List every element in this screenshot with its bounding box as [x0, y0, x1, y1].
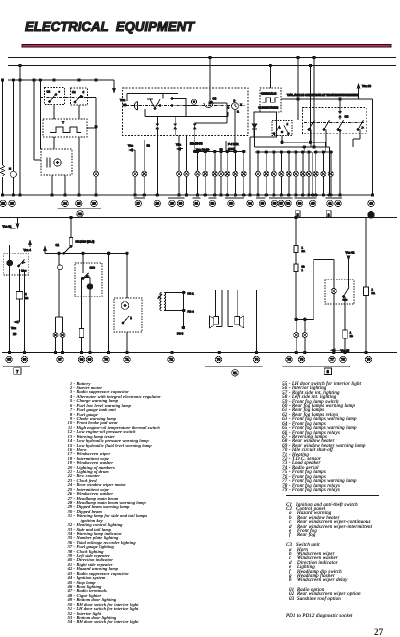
lamps cluster B — [255, 171, 311, 176]
front fog lamps 75 76 — [294, 333, 308, 338]
wire rear wiper leg — [126, 332, 128, 353]
wire Z Rb to Ven 29 arrow — [11, 299, 20, 336]
svg-text:24: 24 — [63, 202, 67, 206]
svg-text:C2: C2 — [72, 91, 76, 94]
wire bus of lamp cluster A — [195, 151, 245, 153]
svg-text:ELECTRICAL EQUIPMENT: ELECTRICAL EQUIPMENT — [25, 19, 195, 34]
svg-text:Ven 26: Ven 26 — [362, 84, 371, 88]
svg-text:V: V — [240, 103, 242, 106]
ignition switch C1 — [56, 243, 72, 254]
numbered terminals row 1 — [0, 200, 374, 206]
boxed sheet ref 6 — [326, 211, 331, 217]
svg-text:23: 23 — [10, 202, 14, 206]
bracket 73-74 with option 01 — [205, 367, 263, 376]
wire C2d down — [78, 105, 80, 119]
wire leg item 41 — [328, 147, 330, 195]
wire lamp feed branch — [19, 269, 21, 292]
wire relay to lamp split — [295, 272, 314, 321]
fog switch dashed box right — [325, 280, 354, 304]
wire GD box drop — [281, 136, 284, 144]
svg-text:69: 69 — [88, 358, 92, 362]
svg-text:C2: C2 — [345, 114, 349, 118]
junction dots on bus A — [196, 150, 245, 153]
resistor Z Rb — [16, 292, 29, 300]
svg-text:27: 27 — [137, 202, 141, 206]
label Ven B2-65-78 — [176, 142, 223, 152]
wire right edge down to rail (item 43) — [372, 99, 374, 195]
svg-text:78: 78 — [341, 358, 345, 362]
dash-dot centerline of C3 — [126, 105, 245, 107]
Ven 26 stub — [357, 84, 371, 100]
wire bus of cluster C — [314, 151, 334, 154]
svg-text:Ven 31: Ven 31 — [346, 250, 355, 254]
switch unit C3 (dashed box) — [123, 88, 249, 136]
loud speaker 2 (item 74a) — [235, 316, 244, 328]
wire C2b feed — [82, 253, 84, 273]
wire T box legs — [54, 137, 79, 195]
flasher unit CENTRALE CLIGNOTANTE (dashed box) — [258, 88, 281, 112]
wire 62 feed lamp 27b — [144, 140, 150, 171]
wire fuel tank unit line — [2, 80, 4, 195]
svg-text:D: D — [234, 100, 236, 103]
wiper switch lever in C3 — [147, 99, 160, 109]
svg-text:c: c — [59, 91, 61, 94]
svg-text:C2 b: C2 b — [90, 266, 96, 269]
fuel gauge (item 8) — [9, 168, 17, 178]
wire pin 157 drop to rail (item 28) — [156, 117, 158, 196]
Ven 31 stub left — [3, 218, 20, 229]
wire flasher feed from bus B — [269, 64, 272, 88]
svg-text:79: 79 — [367, 358, 371, 362]
wire drop x40 into motor box — [39, 80, 41, 149]
svg-text:40: 40 — [123, 103, 127, 107]
wire boot lamp legs — [56, 337, 63, 352]
connector pins at C3 bottom — [156, 124, 197, 130]
bracket 75-79 with boxed 8 — [283, 366, 351, 374]
svg-text:33: 33 — [229, 202, 233, 206]
bracket 24-26 with circle 62 — [58, 209, 102, 217]
legend separator line — [286, 495, 379, 496]
svg-text:62: 62 — [147, 144, 151, 148]
wire C2c to timer box — [53, 105, 55, 120]
svg-text:Rb: Rb — [350, 335, 354, 338]
svg-text:F2 MAU (16 A): F2 MAU (16 A) — [76, 240, 95, 244]
hazard unit C2 (dashed box) — [303, 108, 367, 134]
wire C1 feed — [70, 216, 73, 237]
svg-text:B2-65-78: B2-65-78 — [190, 142, 203, 146]
switch C2 e right — [343, 288, 350, 302]
svg-text:C3: C3 — [213, 96, 217, 100]
svg-text:PD 4: PD 4 — [188, 309, 195, 313]
arrow at C1 rail end — [43, 246, 46, 253]
wire rear wiper feed — [126, 253, 128, 298]
wire bus A (+ supply) — [8, 57, 396, 59]
svg-text:32: 32 — [211, 202, 215, 206]
label VALABLE CENTRALE TRANSISTORISEE — [287, 93, 358, 97]
svg-text:40: 40 — [311, 202, 315, 206]
svg-text:01: 01 — [233, 371, 237, 375]
legend connector blocks C1 C2 C3 and options — [286, 504, 372, 603]
switch b in hazard box — [323, 120, 329, 130]
wire inner bottom bus of C3 — [145, 109, 228, 117]
svg-text:77: 77 — [330, 358, 334, 362]
svg-text:G: G — [273, 133, 275, 136]
wire relay box drop to rail (item 34) — [250, 137, 255, 195]
svg-text:26: 26 — [92, 202, 96, 206]
lighting switch hook in C3 — [204, 101, 213, 107]
heated rear window lamp in C2b — [87, 278, 93, 290]
junction dot bus B at x20 — [19, 64, 22, 67]
svg-text:28: 28 — [156, 202, 160, 206]
switch d in hazard box — [357, 120, 364, 130]
switch in C2b — [82, 273, 91, 279]
wire switch leg to Rb — [343, 297, 354, 353]
wire choke warning line x96 — [95, 128, 97, 195]
boot light switch (item 46) — [58, 263, 63, 272]
wire long drop x20 — [19, 66, 21, 196]
wire C2b leg 1 with resistor — [79, 278, 84, 353]
svg-text:7: 7 — [16, 369, 19, 374]
svg-text:6: 6 — [328, 213, 330, 217]
svg-text:d: d — [83, 91, 85, 94]
boot lamps pair (item 67) — [53, 333, 65, 338]
svg-text:65: 65 — [7, 358, 11, 362]
control panel switch C2 d (dashed box) — [71, 88, 88, 105]
svg-text:C1: C1 — [56, 243, 60, 247]
wire top feed of transistorised unit — [281, 98, 373, 101]
svg-text:Ven 31: Ven 31 — [3, 224, 12, 228]
lamp pair item 60 — [133, 171, 147, 176]
wire speaker 2 pair — [228, 290, 237, 327]
svg-text:d: d — [287, 123, 289, 126]
label fuse F4 VER 10A — [226, 141, 239, 151]
lamps cluster C — [313, 171, 333, 176]
wire far right leg — [364, 218, 376, 353]
windscreen wiper motor assembly (dashed box) — [41, 149, 72, 175]
relay contact Rb 1 — [294, 264, 305, 272]
wire fog lamp 77 leg — [333, 294, 335, 353]
svg-text:67: 67 — [58, 358, 62, 362]
intermittent wipe timer T (dashed box) — [43, 119, 87, 137]
wire front fog lamp legs — [296, 319, 305, 332]
wire speaker 1 pair — [215, 290, 222, 327]
svg-text:Ven 4: Ven 4 — [24, 248, 32, 252]
svg-text:30: 30 — [179, 202, 183, 206]
loud speaker 1 (item 73) — [210, 316, 219, 328]
fog warning lamp in box (item 77) — [331, 288, 336, 293]
wire pin 175 drop — [174, 117, 176, 136]
wire cluster A verticals — [179, 152, 244, 196]
svg-text:C2: C2 — [47, 91, 51, 94]
wire cluster B C verticals — [258, 152, 331, 195]
diode on relay box — [252, 124, 257, 129]
wire vert 298 from bus A — [297, 56, 300, 120]
wire bus B — [8, 65, 396, 67]
wire vert 310 from bus B — [309, 64, 312, 143]
svg-text:38: 38 — [286, 202, 290, 206]
control panel C2 b dashed box — [75, 263, 102, 297]
direction indicator switch box G D — [272, 121, 292, 136]
svg-text:41: 41 — [328, 202, 332, 206]
svg-text:8: 8 — [327, 369, 330, 374]
wire Ven feed lamp 27a — [128, 144, 135, 172]
wire y147 line — [255, 146, 330, 152]
TDC sensor coil (item 72) — [157, 293, 165, 311]
svg-text:62: 62 — [78, 212, 82, 216]
wire timer to x96 junction — [87, 125, 97, 128]
svg-text:25: 25 — [77, 202, 81, 206]
wire relay box to y147 line — [254, 129, 256, 147]
Ven 4 stub — [24, 240, 32, 252]
svg-text:T: T — [62, 121, 64, 125]
clock (item 23/38) — [227, 100, 242, 114]
relay contact 1 RA — [294, 246, 305, 254]
washer pump circle in C3 — [191, 99, 196, 104]
svg-text:39: 39 — [298, 202, 302, 206]
wire y142 line — [282, 142, 325, 152]
wire bus of cluster B — [255, 151, 312, 154]
wire door switch leg — [24, 270, 26, 353]
svg-text:1: 1 — [302, 269, 304, 272]
junction dots on rail 2 — [8, 351, 367, 354]
wire C2b leg 2 — [89, 290, 91, 353]
Ven 31 stub right — [346, 250, 355, 287]
wire rail 2 — [2, 352, 397, 354]
junction dots on rail C — [1, 79, 97, 82]
wire switch legs to y147 — [311, 130, 326, 148]
svg-text:C2 e: C2 e — [21, 269, 27, 272]
horn symbol (item 16) — [131, 102, 138, 110]
wire leg item 40 — [312, 152, 314, 195]
wire loop in C3 — [171, 98, 198, 106]
switch c in hazard box — [337, 120, 343, 131]
svg-text:RA: RA — [372, 292, 376, 295]
fuel gauge tank unit sender (item 7) — [0, 165, 4, 176]
wire inner top wires of C3 — [127, 94, 186, 117]
page number 27 — [374, 627, 383, 637]
wire radio aerial leg — [256, 290, 258, 353]
wire lamp legs from C3 box — [179, 136, 186, 172]
svg-text:R: R — [237, 111, 239, 114]
wire C3 feed from bus A — [195, 56, 227, 123]
rear wiper motor box (dashed) — [114, 298, 142, 332]
svg-text:76: 76 — [300, 358, 304, 362]
wire switch d elbow — [353, 130, 360, 148]
svg-text:71: 71 — [125, 358, 129, 362]
svg-text:68: 68 — [80, 358, 84, 362]
lamps 29-30 pair — [177, 171, 190, 176]
svg-text:M: M — [9, 168, 11, 171]
svg-text:35: 35 — [261, 202, 265, 206]
wire between relays — [295, 253, 297, 265]
Ven 29 arrow right — [331, 348, 350, 352]
wire fuel gauge line — [12, 80, 14, 195]
wire separator rail — [0, 217, 397, 219]
svg-text:66: 66 — [23, 358, 27, 362]
svg-text:CLIGNOTANTE: CLIGNOTANTE — [258, 106, 278, 110]
svg-text:F 4 VER: F 4 VER — [228, 142, 239, 146]
svg-text:75: 75 — [287, 358, 291, 362]
svg-text:29: 29 — [13, 332, 17, 336]
interior lamp (item 52) — [7, 260, 13, 266]
wire switch c leg to rail (item 42) — [339, 131, 341, 196]
title ELECTRICAL EQUIPMENT — [25, 19, 195, 34]
svg-text:03: 03 — [369, 213, 373, 217]
svg-text:31: 31 — [195, 202, 199, 206]
svg-text:D: D — [288, 133, 290, 136]
dash-dot centerline of hazard box — [304, 122, 365, 124]
diagnostic socket note — [286, 615, 353, 619]
svg-text:36: 36 — [273, 202, 277, 206]
wire drop x34 into motor box — [34, 80, 41, 160]
wire PD1 PD4 taps — [164, 291, 194, 313]
wire pin 194 drop to bus — [193, 123, 196, 153]
svg-text:43: 43 — [369, 202, 373, 206]
wire riser staple — [314, 260, 334, 320]
svg-text:Z: Z — [25, 293, 27, 296]
svg-text:C: C — [227, 107, 229, 110]
svg-text:37: 37 — [279, 202, 283, 206]
svg-text:42: 42 — [336, 202, 340, 206]
wire fog relay feed right — [295, 216, 298, 245]
svg-text:74: 74 — [255, 358, 259, 362]
boxed sheet ref 5 — [295, 211, 300, 217]
wire rail C with Ven 40 arrow — [8, 80, 127, 107]
choke warning lamp (item 9) — [94, 171, 99, 176]
group ticks under rail 1 — [134, 197, 342, 199]
wire motor legs — [52, 175, 65, 195]
svg-text:70: 70 — [104, 358, 108, 362]
relay box under flasher — [254, 112, 277, 137]
svg-text:PD 1: PD 1 — [188, 291, 195, 295]
wire PD5 tap — [177, 293, 185, 336]
legend left column items 1-54 — [66, 382, 161, 625]
option 03 marker (filled circle) — [368, 212, 374, 218]
svg-text:Rb: Rb — [25, 297, 29, 300]
svg-text:73: 73 — [217, 358, 221, 362]
numbered terminals row 2 — [6, 356, 372, 362]
svg-text:34: 34 — [248, 202, 252, 206]
svg-text:RA: RA — [302, 250, 306, 253]
wire boot lamp split — [56, 272, 63, 333]
wire C2d elbow to x96 — [87, 98, 96, 127]
interior light dashed box — [4, 254, 29, 275]
fuse F2 MAU 16A — [69, 238, 94, 247]
door switch in box C2 e — [18, 260, 27, 273]
junction dots on rail 1 — [1, 194, 374, 197]
svg-text:22: 22 — [1, 202, 5, 206]
wire feed x340 — [339, 98, 342, 120]
wire rail 1 — [2, 194, 374, 196]
wire clock drop to bus A — [234, 109, 237, 152]
svg-text:72: 72 — [169, 358, 173, 362]
legend right column items 55-79 — [281, 383, 365, 494]
wire C1 rail — [45, 252, 128, 255]
lamps cluster A row — [195, 171, 246, 176]
svg-text:29: 29 — [170, 202, 174, 206]
wire boot light feed — [58, 253, 60, 263]
wire interior lamp line left — [9, 245, 11, 353]
switch a in hazard box — [308, 120, 314, 130]
wire lamp pair legs to rail — [135, 176, 144, 195]
svg-text:PD 5: PD 5 — [177, 332, 184, 336]
wire fog lamp legs low — [296, 337, 305, 352]
wire vert 314 from bus A — [313, 56, 316, 148]
svg-text:CENTRALE: CENTRALE — [261, 91, 276, 95]
svg-text:Ven: Ven — [128, 144, 133, 148]
connector pin pair at x340 — [338, 111, 341, 117]
bracket 65-66 with boxed 7 — [3, 366, 30, 374]
dash-dot control line through C2c C2d — [40, 97, 92, 99]
wire leg item 70 — [108, 253, 110, 352]
svg-text:1: 1 — [350, 331, 352, 334]
svg-text:1: 1 — [372, 288, 374, 291]
svg-text:Ven: Ven — [11, 326, 16, 330]
control panel switch C2 c (dashed box) — [45, 88, 65, 105]
red rule under title — [22, 45, 391, 48]
